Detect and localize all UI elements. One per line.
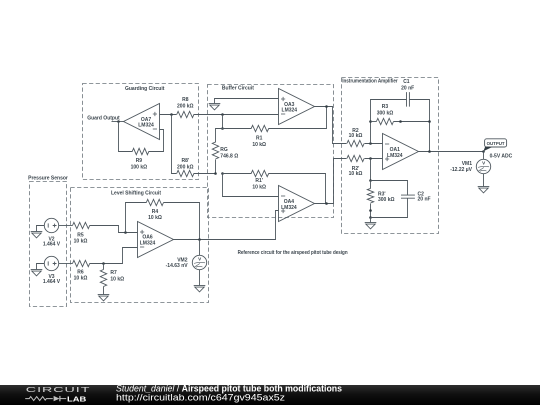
node output junction bbox=[482, 150, 485, 159]
resistor R8 bbox=[177, 97, 279, 118]
svg-text:Level Shifting Circuit: Level Shifting Circuit bbox=[111, 191, 161, 197]
svg-text:10 kΩ: 10 kΩ bbox=[74, 238, 88, 244]
svg-text:10 kΩ: 10 kΩ bbox=[252, 142, 266, 148]
svg-text:20 nF: 20 nF bbox=[401, 86, 414, 92]
wire: OA1 output bbox=[419, 150, 484, 153]
svg-text:R3: R3 bbox=[382, 104, 389, 110]
source V2 bbox=[43, 218, 61, 247]
op-amp OA6 bbox=[138, 222, 174, 258]
svg-text:10 kΩ: 10 kΩ bbox=[349, 133, 363, 139]
resistor R3 bbox=[369, 104, 431, 125]
wire: OA4 + input bbox=[200, 211, 279, 240]
svg-text:LM324: LM324 bbox=[140, 241, 156, 247]
resistor RG bbox=[212, 129, 238, 175]
ground (R7) bbox=[98, 295, 110, 301]
resistor R6 bbox=[59, 248, 138, 282]
svg-text:Instrumentation Amplifier: Instrumentation Amplifier bbox=[342, 78, 398, 84]
svg-text:-14.63 nV: -14.63 nV bbox=[166, 263, 189, 269]
resistor R2' bbox=[347, 155, 383, 177]
svg-text:R4: R4 bbox=[152, 209, 159, 215]
svg-text:20 nF: 20 nF bbox=[418, 197, 431, 203]
resistor R4 bbox=[126, 199, 200, 239]
wire: OA3 - node bbox=[221, 113, 224, 130]
svg-text:LAB: LAB bbox=[67, 394, 86, 403]
svg-text:200 kΩ: 200 kΩ bbox=[177, 165, 194, 171]
svg-text:1.464 V: 1.464 V bbox=[43, 242, 61, 248]
resistor R9 bbox=[119, 122, 164, 171]
resistor R8' bbox=[177, 158, 216, 177]
svg-text:Guard Output: Guard Output bbox=[87, 116, 120, 122]
node OUTPUT flag bbox=[483, 139, 506, 152]
svg-text:LM324: LM324 bbox=[387, 153, 403, 159]
op-amp OA1 bbox=[383, 134, 419, 170]
svg-text:0-5V ADC: 0-5V ADC bbox=[490, 153, 513, 159]
svg-text:200 kΩ: 200 kΩ bbox=[177, 103, 194, 109]
svg-text:Buffer Circuit: Buffer Circuit bbox=[222, 86, 254, 92]
svg-text:Reference circuit for the airs: Reference circuit for the airspeed pitot… bbox=[238, 250, 348, 256]
wire: guard node vertical bbox=[172, 115, 177, 174]
label: reference note bbox=[238, 250, 348, 256]
svg-text:300 kΩ: 300 kΩ bbox=[377, 110, 394, 116]
svg-text:R1': R1' bbox=[255, 178, 263, 184]
label 0-5V ADC bbox=[490, 153, 513, 159]
resistor R2 bbox=[347, 128, 383, 147]
svg-text:10 kΩ: 10 kΩ bbox=[74, 276, 88, 282]
wire: OA6 output bbox=[174, 238, 276, 241]
ground (VM2) bbox=[194, 270, 206, 292]
capacitor C1 bbox=[371, 79, 430, 151]
wire: OA4 output bbox=[315, 159, 347, 205]
svg-text:300 kΩ: 300 kΩ bbox=[378, 197, 395, 203]
ground (V3) bbox=[31, 264, 45, 276]
op-amp OA3 bbox=[279, 89, 315, 125]
op-amp OA7 bbox=[124, 104, 160, 140]
svg-text:C1: C1 bbox=[403, 79, 410, 85]
wire: OA3 output bbox=[315, 105, 347, 143]
box: Instrumentation Amplifier bbox=[342, 78, 439, 234]
svg-text:1.464 V: 1.464 V bbox=[43, 279, 61, 285]
svg-text:RG: RG bbox=[220, 147, 228, 153]
box: Pressure Sensor bbox=[28, 176, 68, 307]
svg-text:R7: R7 bbox=[110, 270, 117, 276]
box: Guarding Circuit bbox=[83, 84, 199, 180]
svg-text:CIRCUIT: CIRCUIT bbox=[26, 386, 91, 394]
svg-text:LM324: LM324 bbox=[282, 108, 298, 114]
svg-text:R8: R8 bbox=[182, 97, 189, 103]
ground (OA3 + input) bbox=[209, 99, 279, 110]
svg-text:-12.22 µV: -12.22 µV bbox=[450, 167, 472, 173]
resistor R5 bbox=[59, 222, 138, 244]
svg-text:LM324: LM324 bbox=[138, 123, 154, 129]
svg-text:OA6: OA6 bbox=[142, 235, 153, 241]
svg-text:R8': R8' bbox=[182, 158, 190, 164]
svg-text:10 kΩ: 10 kΩ bbox=[349, 171, 363, 177]
node Guard Output bbox=[87, 116, 123, 123]
svg-text:10 kΩ: 10 kΩ bbox=[148, 215, 162, 221]
capacitor C2 bbox=[371, 181, 431, 218]
svg-text:http://circuitlab.com/c647gv94: http://circuitlab.com/c647gv945ax5z bbox=[116, 392, 286, 402]
svg-text:100 kΩ: 100 kΩ bbox=[131, 165, 148, 171]
resistor R1 bbox=[223, 107, 327, 149]
svg-text:10 kΩ: 10 kΩ bbox=[110, 277, 124, 283]
ground (instrumentation amplifier) bbox=[365, 218, 377, 229]
svg-text:10 kΩ: 10 kΩ bbox=[252, 185, 266, 191]
svg-text:R1: R1 bbox=[256, 136, 263, 142]
wire: OA7 + input node bbox=[160, 113, 177, 116]
box: Level Shifting Circuit bbox=[71, 188, 209, 303]
source V3 bbox=[43, 256, 61, 285]
box: Buffer Circuit bbox=[208, 85, 334, 218]
svg-text:746.8 Ω: 746.8 Ω bbox=[220, 154, 238, 160]
op-amp OA4 bbox=[279, 186, 315, 222]
resistor R1' bbox=[223, 170, 326, 203]
voltmeter VM2 bbox=[166, 240, 207, 270]
svg-text:Pressure Sensor: Pressure Sensor bbox=[28, 176, 68, 182]
resistor R3' bbox=[367, 159, 394, 219]
logo CIRCUIT LAB bbox=[25, 386, 90, 403]
svg-text:Guarding Circuit: Guarding Circuit bbox=[125, 86, 165, 92]
svg-text:OUTPUT: OUTPUT bbox=[487, 141, 505, 146]
footer text bbox=[116, 383, 342, 402]
wire: OA4 - node vertical bbox=[221, 172, 278, 196]
svg-text:LM324: LM324 bbox=[281, 205, 297, 211]
svg-text:R9: R9 bbox=[136, 158, 143, 164]
ground (V2) bbox=[31, 226, 45, 238]
ground (VM1) bbox=[478, 174, 490, 193]
voltmeter VM1 bbox=[450, 159, 490, 173]
resistor R7 bbox=[100, 264, 124, 295]
